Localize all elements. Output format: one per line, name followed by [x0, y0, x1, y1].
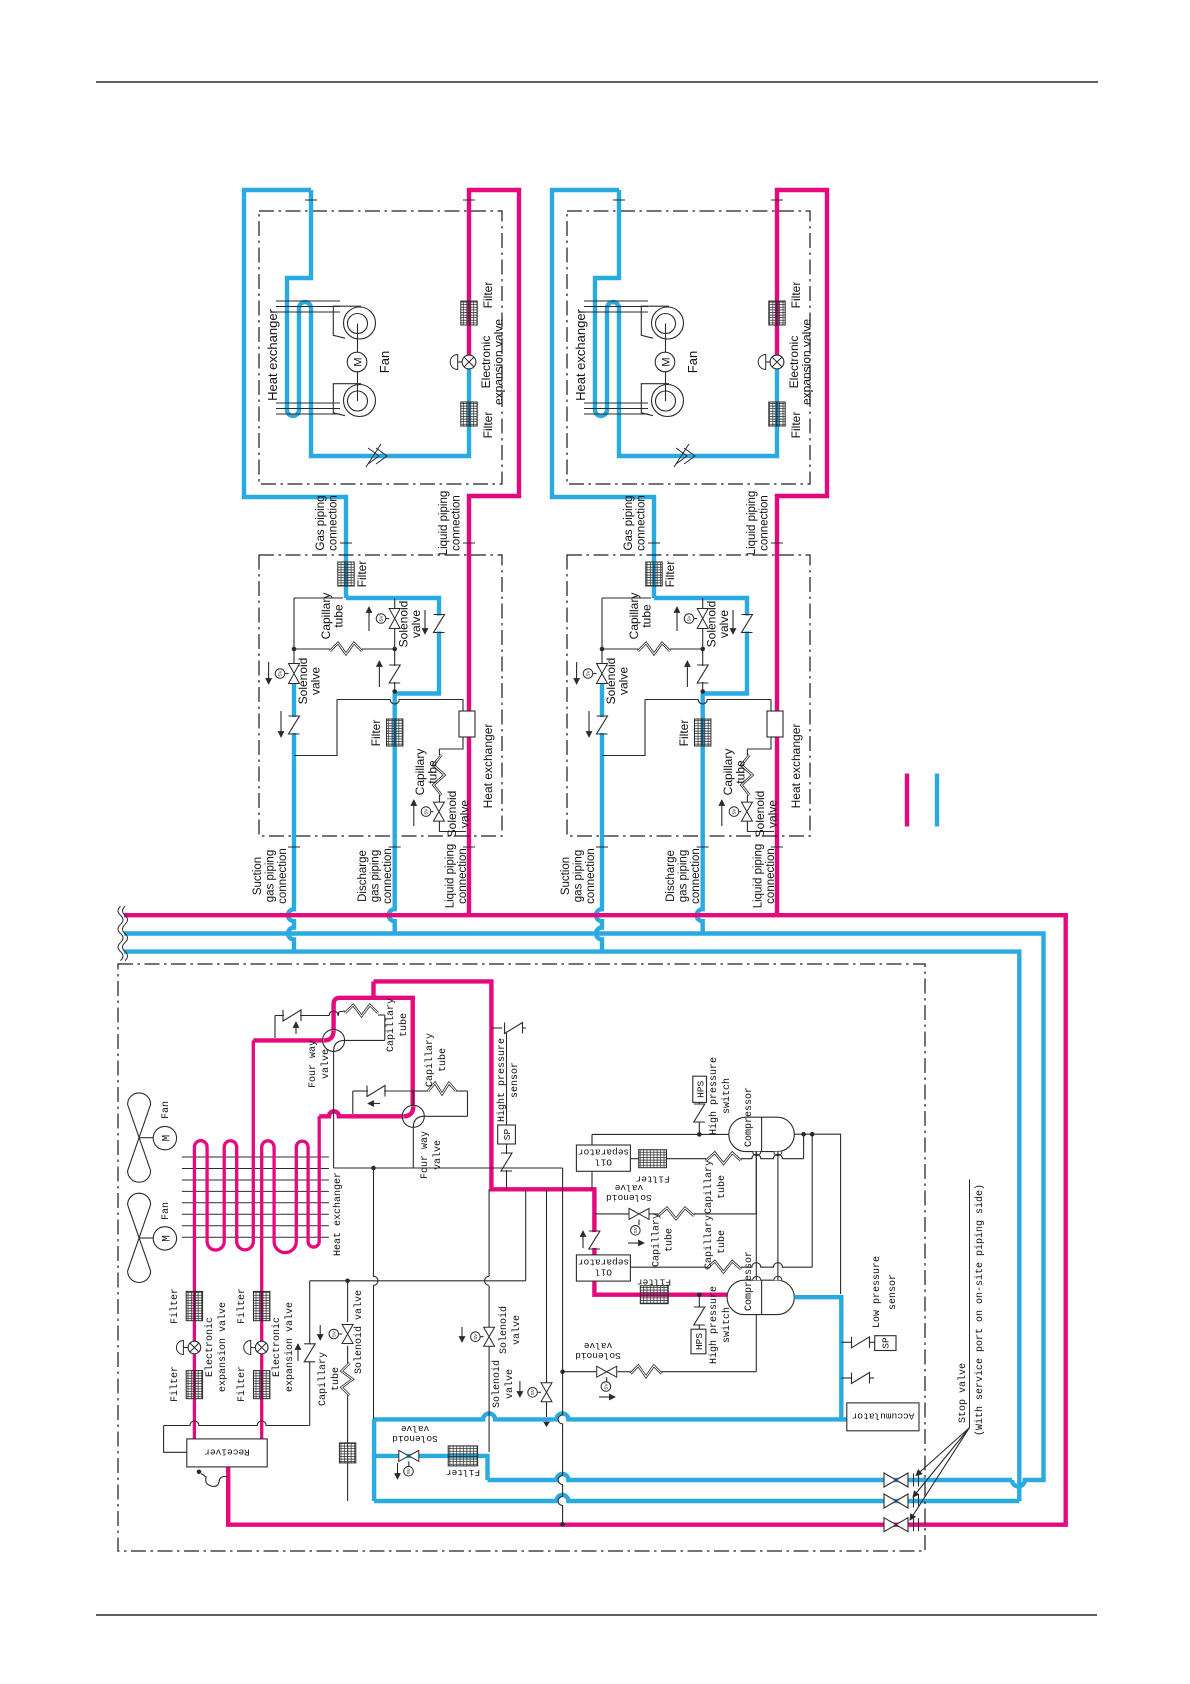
check valve Z (HPS1) — [691, 1105, 707, 1121]
EEV branch 1 filters — [186, 1291, 202, 1320]
legend liquid line sample (magenta) — [905, 774, 909, 827]
svg-text:Filter: Filter — [663, 561, 677, 588]
indoor unit 1 flow arrow on gas line — [366, 444, 387, 467]
solenoid valve SV1 (BS unit 2) — [597, 664, 608, 684]
solenoid valve SV2 (BS unit 1) — [389, 609, 400, 629]
filter on gas connection (BS unit 1) — [338, 562, 354, 586]
high pressure switch 2 box — [691, 1329, 706, 1354]
SV arrow (trunk interconnect) — [397, 1463, 399, 1479]
fan blower 1 (indoor unit 2) — [641, 306, 669, 338]
svg-text:Solenoid: Solenoid — [498, 1306, 510, 1354]
svg-text:SV: SV — [530, 1388, 535, 1395]
svg-text:Suction: Suction — [252, 857, 264, 895]
four-way valve U2 — [402, 1105, 424, 1127]
filter on gas connection (BS unit 2) — [646, 562, 662, 586]
svg-text:valve: valve — [617, 667, 631, 695]
svg-text:Filter: Filter — [236, 1288, 248, 1324]
svg-text:(With service port on on-site: (With service port on on-site piping sid… — [974, 1184, 986, 1436]
capillary line from U1 / wire — [339, 1011, 346, 1012]
capillary tube vertical (BS unit 2) — [741, 755, 752, 795]
HPS2 junction dot — [697, 1292, 702, 1297]
hot gas joint arrow — [544, 1422, 550, 1427]
check valve Z2 (BS unit 2) — [695, 666, 711, 682]
svg-text:Four way: Four way — [308, 1040, 319, 1088]
svg-text:Filter: Filter — [169, 1288, 181, 1324]
svg-text:Capillary: Capillary — [385, 998, 397, 1052]
indoor unit 1 filter (lower, on liquid line) — [461, 402, 477, 426]
svg-text:M: M — [661, 357, 673, 366]
solenoid valve SV3 (BS unit 1) — [433, 802, 444, 821]
HPS branch 1 wires / wire — [698, 1122, 700, 1134]
accumulator box — [847, 1403, 919, 1431]
svg-text:Filter: Filter — [677, 720, 691, 747]
svg-text:Filter: Filter — [446, 1467, 480, 1478]
indoor unit 2 coil fins — [584, 300, 648, 302]
svg-text:Suction: Suction — [560, 857, 572, 895]
SV3 flow arrow (BS unit 1) — [413, 800, 415, 826]
fan shaft (indoor unit 1) — [357, 324, 359, 353]
svg-text:tube: tube — [640, 604, 654, 628]
svg-text:SV: SV — [633, 1226, 638, 1233]
indoor unit 2 gas pipe (cyan) outer loop / wire — [552, 190, 654, 598]
SV arrow (discharge branch) — [461, 1327, 463, 1342]
indoor unit 1 coil fins — [276, 300, 340, 302]
electronic expansion valve (outdoor 1) — [188, 1341, 201, 1354]
SV1 flow arrow (BS unit 1) — [268, 662, 270, 684]
svg-text:tube: tube — [437, 1048, 449, 1072]
svg-text:valve: valve — [458, 800, 472, 828]
BS unit 2 gas header pipe (cyan) / wire — [654, 598, 747, 694]
indoor unit 2 filter (upper, on liquid line) — [769, 301, 785, 325]
svg-text:Fan: Fan — [377, 351, 392, 373]
svg-text:Solenoid: Solenoid — [491, 1360, 503, 1408]
solenoid valve SV3 (BS unit 2) — [741, 802, 752, 821]
stop valve (liquid) — [884, 1518, 908, 1532]
four-way valve suction return wires / wire — [333, 1051, 335, 1168]
suction gas trunk line (cyan) / wire — [374, 1413, 847, 1419]
svg-text:tube: tube — [716, 1230, 728, 1254]
svg-text:M: M — [162, 1235, 174, 1242]
svg-text:sensor: sensor — [510, 1062, 521, 1098]
solenoid valve (comp2 bypass) — [597, 1366, 617, 1377]
svg-text:High pressure: High pressure — [708, 1057, 720, 1135]
outdoor heat exchanger coil circuit 1 (magenta) / wire — [194, 1040, 253, 1439]
electronic expansion valve (indoor unit 1) — [462, 355, 476, 369]
BS unit 2 capillary line / wire — [602, 648, 638, 650]
check valve Z (LP sensor) — [853, 1334, 869, 1350]
svg-text:connection: connection — [636, 495, 648, 551]
svg-text:High pressure: High pressure — [708, 1286, 720, 1364]
indoor unit 1 enclosure (dash-dot box) — [259, 211, 502, 484]
oil separator 1 box — [576, 1145, 630, 1171]
stop valve (suction gas) — [884, 1494, 908, 1508]
Z arrow (U2 bypass) — [368, 1103, 380, 1105]
discharge riser (magenta) / wire — [374, 981, 728, 1294]
svg-text:Compressor: Compressor — [744, 1251, 755, 1311]
SV2 flow arrow (BS unit 1) — [368, 607, 370, 631]
stop valve leader lines — [969, 1179, 971, 1427]
capillary line from U2 / wire — [424, 1115, 467, 1117]
oil return 2 wire / wire — [631, 1266, 707, 1268]
svg-text:Filter: Filter — [355, 561, 369, 588]
capillary tube (BS unit 2) — [638, 643, 670, 654]
fan blower 1 (indoor unit 1) — [333, 306, 361, 338]
svg-text:valve: valve — [766, 800, 780, 828]
svg-text:Low pressure: Low pressure — [872, 1256, 883, 1328]
BS unit 1 solenoid branch wires — [394, 598, 396, 649]
svg-text:SV: SV — [424, 808, 429, 815]
high pressure switch 1 box — [693, 1076, 707, 1102]
capillary tube (BS unit 1) — [330, 643, 362, 654]
svg-text:Capillary: Capillary — [317, 1352, 329, 1406]
svg-text:Fan: Fan — [685, 351, 700, 373]
svg-text:Discharge: Discharge — [665, 850, 677, 902]
capillary tube (comp1 bypass) — [658, 1208, 694, 1219]
svg-text:Capillary: Capillary — [651, 1213, 663, 1267]
receiver box — [187, 1439, 267, 1467]
svg-text:Discharge: Discharge — [357, 850, 369, 902]
svg-text:expansion valve: expansion valve — [284, 1302, 296, 1392]
solenoid valve (hot gas) — [541, 1383, 552, 1402]
svg-text:Electronic: Electronic — [271, 1317, 283, 1377]
Z arrow (receiver inlet) — [297, 1344, 299, 1361]
svg-text:Filter: Filter — [789, 412, 803, 439]
BS unit 1 enclosure (dash-dot box) — [259, 555, 502, 836]
check valve Z3 on gas header (BS unit 2) — [739, 616, 755, 632]
BS unit 2 bottom border ticks — [596, 846, 608, 848]
svg-text:valve: valve — [717, 610, 731, 638]
svg-text:Capillary: Capillary — [703, 1215, 715, 1269]
solenoid valve (trunk interconnect) — [399, 1450, 419, 1461]
svg-text:Filter: Filter — [481, 412, 495, 439]
oil separator 1 drain wire / wire — [591, 1171, 593, 1189]
BS unit 1 gas header pipe (cyan) / wire — [346, 598, 439, 694]
svg-text:sensor: sensor — [888, 1274, 899, 1310]
check valve Z (HP sensor bottom) — [499, 1154, 515, 1170]
receiver oil curl / wire — [201, 1474, 228, 1487]
capillary tube (oil return 1) — [706, 1153, 741, 1164]
svg-text:SV: SV — [604, 1383, 609, 1390]
indoor unit 2 border tick marks — [613, 199, 625, 201]
indoor unit 1 filter (upper, on liquid line) — [461, 301, 477, 325]
hot gas bypass wires / wire — [546, 1189, 548, 1383]
comp1 bypass wires / wire — [594, 1213, 629, 1215]
svg-text:expansion valve: expansion valve — [217, 1302, 229, 1392]
svg-text:Filter: Filter — [637, 1277, 671, 1288]
svg-text:gas piping: gas piping — [265, 850, 277, 902]
svg-text:tube: tube — [716, 1175, 728, 1199]
Z1 arrow (BS unit 1) — [280, 711, 282, 737]
svg-text:M: M — [353, 357, 365, 366]
SV1 flow arrow (BS unit 2) — [576, 662, 578, 684]
svg-text:SV: SV — [687, 615, 692, 622]
svg-text:valve: valve — [511, 1315, 523, 1345]
svg-text:Receiver: Receiver — [204, 1447, 250, 1458]
svg-text:connection: connection — [451, 495, 463, 551]
svg-text:connection: connection — [328, 495, 340, 551]
check valve Z on discharge riser — [586, 1232, 602, 1248]
SP low pressure sensor box — [875, 1336, 896, 1351]
solenoid valve (discharge branch) — [484, 1327, 495, 1346]
EEV branch 2 filters — [254, 1291, 270, 1320]
outdoor fan 2 — [128, 1193, 151, 1282]
check valve bypass wires (U2) / wire — [353, 1090, 368, 1092]
svg-text:SV: SV — [379, 615, 384, 622]
svg-text:valve: valve — [432, 1140, 444, 1170]
svg-text:Heat exchanger: Heat exchanger — [265, 308, 280, 400]
HPS1 junction dot — [697, 1132, 702, 1137]
svg-text:valve: valve — [309, 667, 323, 695]
svg-text:Liquid piping: Liquid piping — [445, 844, 457, 909]
BS unit 1 suction pipe (cyan) / wire — [288, 684, 294, 952]
capillary tube (U1) — [345, 1005, 378, 1016]
SV arrow (comp1 bypass) — [628, 1242, 644, 1244]
subcool branch wires / wire — [347, 1281, 349, 1322]
BS unit 1 capillary line / wire — [294, 648, 330, 650]
svg-text:connection: connection — [457, 848, 469, 904]
indoor unit 1 gas pipe (cyan) outer loop / wire — [244, 190, 346, 598]
check valve Z1 on suction (BS unit 1) — [286, 717, 302, 733]
oil return 1 wire / wire — [631, 1158, 639, 1160]
filter on discharge (BS unit 1) — [387, 719, 403, 746]
svg-text:Liquid piping: Liquid piping — [438, 491, 450, 556]
svg-text:connection: connection — [277, 848, 289, 904]
svg-text:Filter: Filter — [481, 282, 495, 309]
BS unit 2 solenoid branch wires — [702, 598, 704, 649]
capillary tube vertical (BS unit 1) — [433, 755, 444, 795]
svg-text:gas piping: gas piping — [678, 850, 690, 902]
node junction dots (BS unit 1) — [292, 647, 297, 652]
svg-text:tube: tube — [734, 760, 748, 784]
svg-text:SV: SV — [406, 1467, 411, 1474]
manifold wire y=1168 extension / wire — [413, 1167, 562, 1169]
svg-text:Filter: Filter — [789, 282, 803, 309]
svg-text:valve: valve — [320, 1049, 332, 1079]
node junction dots (BS unit 2) — [600, 647, 605, 652]
svg-text:connection: connection — [690, 848, 702, 904]
BS unit 1 HX branch wires / wire — [294, 700, 337, 756]
svg-text:SP: SP — [502, 1129, 513, 1141]
Z2 arrow (BS unit 1) — [378, 661, 380, 687]
receiver inlet manifold wires / wire — [164, 1421, 310, 1426]
svg-text:expansion valve: expansion valve — [800, 319, 814, 405]
svg-text:switch: switch — [721, 1078, 733, 1114]
svg-text:SV: SV — [331, 1330, 336, 1337]
svg-text:tube: tube — [332, 604, 346, 628]
suction junction dots — [801, 1132, 806, 1137]
fan blower 2 (indoor unit 2) — [641, 384, 669, 416]
check valve Z (U2 bypass) — [368, 1083, 384, 1099]
svg-text:HPS: HPS — [694, 1333, 705, 1350]
indoor unit 1 heat exchanger coil (cyan) / wire — [287, 190, 469, 456]
high pressure sensor wires / wire — [491, 1027, 502, 1029]
indoor unit 2 heat exchanger coil (cyan) / wire — [595, 190, 777, 456]
svg-text:Solenoid valve: Solenoid valve — [353, 1290, 365, 1374]
compressor 2 (lower) — [727, 1280, 794, 1314]
svg-text:Capillary: Capillary — [703, 1160, 715, 1214]
svg-text:Electronic: Electronic — [204, 1317, 216, 1377]
page top rule — [96, 81, 1098, 83]
solenoid valve (comp1 bypass) — [629, 1208, 649, 1219]
BS unit 1 border ticks (top) — [340, 542, 352, 544]
Z arrow (U1 bypass) — [295, 1022, 297, 1034]
svg-text:Four way: Four way — [420, 1131, 431, 1179]
svg-text:M: M — [162, 1135, 174, 1142]
liquid manifold dot — [345, 1279, 350, 1284]
svg-text:SV: SV — [473, 1333, 478, 1340]
liquid trunk line (magenta) / wire — [124, 915, 1066, 1524]
stop valve (discharge gas) — [884, 1473, 908, 1487]
capillary tube (U2) — [428, 1083, 456, 1094]
comp2 bypass wires / wire — [563, 1371, 596, 1373]
suction return junction dot — [371, 1166, 376, 1171]
check valve Z (U1 bypass) — [284, 1008, 300, 1024]
svg-text:HPS: HPS — [696, 1080, 707, 1097]
page bottom rule — [96, 1614, 1097, 1616]
oil equalization wires / wire — [755, 1152, 757, 1281]
svg-text:valve: valve — [504, 1369, 516, 1399]
outdoor heat exchanger coil circuit 2 (magenta) / wire — [262, 1116, 320, 1439]
svg-text:Filter: Filter — [169, 1366, 181, 1402]
SV arrow (comp2 bypass) — [599, 1396, 615, 1398]
SV arrow (hot gas) — [519, 1381, 521, 1397]
filter (subcool) — [339, 1443, 355, 1463]
svg-text:Liquid piping: Liquid piping — [746, 491, 758, 556]
compressor 1 discharge wire / wire — [592, 1133, 729, 1135]
indoor unit 2 filter (lower, on liquid line) — [769, 402, 785, 426]
filter (oil return 1) — [639, 1150, 667, 1168]
plate heat exchanger (BS unit 1) — [459, 711, 475, 737]
SP high pressure sensor box — [498, 1125, 516, 1144]
four-way valve U1 — [323, 1029, 345, 1051]
svg-text:gas piping: gas piping — [370, 850, 382, 902]
SV arrow (subcool) — [319, 1325, 321, 1340]
HPS branch 2 wires / wire — [698, 1295, 700, 1307]
check valve Z2 (BS unit 1) — [387, 666, 403, 682]
indoor unit 1 liquid pipe (magenta) / wire — [469, 190, 519, 915]
outdoor coil fins — [182, 1156, 329, 1158]
discharge branch wires / wire — [488, 1189, 490, 1276]
fan shaft (indoor unit 2) — [665, 324, 667, 353]
svg-text:Capillary: Capillary — [424, 1033, 436, 1087]
svg-text:Hight pressure: Hight pressure — [496, 1038, 508, 1122]
plate heat exchanger (BS unit 2) — [767, 711, 783, 737]
check valve Z1 on suction (BS unit 2) — [594, 717, 610, 733]
check valve Z3 on gas header (BS unit 1) — [431, 616, 447, 632]
svg-text:gas piping: gas piping — [573, 850, 585, 902]
check valve Z (receiver inlet) — [302, 1345, 318, 1361]
svg-text:Accumulator: Accumulator — [852, 1411, 915, 1422]
svg-text:expansion valve: expansion valve — [492, 319, 506, 405]
discharge gas trunk line (cyan) / wire — [374, 1456, 487, 1480]
svg-text:tube: tube — [664, 1228, 676, 1252]
filter on discharge (BS unit 2) — [695, 719, 711, 746]
indoor unit 1 border tick marks — [305, 199, 317, 201]
liquid service vertical wire / wire — [558, 1168, 563, 1524]
junction dots on service vertical — [560, 1369, 565, 1374]
svg-text:Stop valve: Stop valve — [957, 1363, 969, 1423]
discharge branch hop — [485, 1276, 490, 1285]
svg-text:Filter: Filter — [236, 1366, 248, 1402]
svg-text:connection: connection — [382, 848, 394, 904]
outdoor unit enclosure (dash-dot box) — [118, 964, 925, 1551]
electronic expansion valve (indoor unit 2) — [770, 355, 784, 369]
SV2 flow arrow (BS unit 2) — [676, 607, 678, 631]
svg-text:SV: SV — [586, 670, 591, 677]
svg-text:tube: tube — [330, 1367, 342, 1391]
solenoid valve SV2 (BS unit 2) — [697, 609, 708, 629]
svg-text:tube: tube — [398, 1013, 410, 1037]
outdoor fan 1 — [128, 1093, 151, 1182]
svg-text:connection: connection — [585, 848, 597, 904]
BS unit 1 thin line top-left / wire — [294, 597, 343, 599]
fan motor M (indoor unit 1) — [347, 352, 367, 372]
Z2 arrow (BS unit 2) — [686, 661, 688, 687]
BS unit 1 discharge pipe down to trunk (cyan) / wire — [389, 694, 395, 934]
receiver curl dot — [197, 1470, 202, 1475]
Z arrow (discharge riser) — [582, 1231, 584, 1248]
svg-text:Heat exchanger: Heat exchanger — [573, 308, 588, 400]
fan motor M (indoor unit 2) — [655, 352, 675, 372]
SV3 flow arrow (BS unit 2) — [721, 800, 723, 826]
capillary tube (oil return 2) — [706, 1261, 741, 1272]
svg-text:SV: SV — [732, 808, 737, 815]
four-way valve 1 feed pipe (magenta) / wire — [253, 1038, 322, 1042]
svg-text:Fan: Fan — [161, 1202, 172, 1220]
svg-text:Filter: Filter — [369, 720, 383, 747]
compressor 1 (upper) — [729, 1117, 795, 1151]
indoor unit 2 enclosure (dash-dot box) — [567, 211, 810, 484]
svg-text:Heat exchanger: Heat exchanger — [332, 1172, 344, 1256]
svg-text:Heat exchanger: Heat exchanger — [789, 724, 803, 809]
svg-text:Heat exchanger: Heat exchanger — [481, 724, 495, 809]
capillary tube (comp2 bypass) — [631, 1366, 662, 1377]
BS unit 2 suction pipe (cyan) / wire — [596, 684, 602, 952]
oil separator 2 box — [576, 1255, 630, 1281]
check valve Z (HP sensor top) — [506, 1020, 522, 1036]
BS unit 2 border ticks (top) — [648, 542, 660, 544]
svg-text:Gas piping: Gas piping — [315, 496, 327, 551]
Z1 arrow (BS unit 2) — [588, 711, 590, 737]
BS unit 2 HX branch wires / wire — [602, 700, 645, 756]
solenoid valve SV1 (BS unit 1) — [289, 664, 300, 684]
svg-text:Fan: Fan — [161, 1101, 172, 1119]
indoor unit 2 liquid pipe (magenta) / wire — [777, 190, 827, 915]
capillary tube (subcool) — [342, 1363, 353, 1396]
svg-text:Gas piping: Gas piping — [623, 496, 635, 551]
svg-text:Compressor: Compressor — [744, 1087, 755, 1147]
svg-text:switch: switch — [721, 1307, 733, 1343]
indoor unit 2 flow arrow on gas line — [674, 444, 695, 467]
svg-text:valve: valve — [409, 610, 423, 638]
legend gas line sample (cyan) — [935, 774, 939, 827]
low pressure sensor wires / wire — [841, 1341, 852, 1343]
pipe break marks at trunk left ends — [118, 906, 123, 924]
compressor 1 suction wire / wire — [794, 1134, 840, 1294]
solenoid valve (subcool) — [342, 1325, 353, 1344]
svg-text:tube: tube — [426, 760, 440, 784]
check valve Z (HPS2) — [691, 1308, 707, 1324]
svg-text:connection: connection — [759, 495, 771, 551]
svg-text:SV: SV — [278, 670, 283, 677]
BS unit 2 thin line top-left / wire — [602, 597, 651, 599]
check valve bypass wires (U1) / wire — [275, 1015, 284, 1017]
BS unit 2 enclosure (dash-dot box) — [567, 555, 810, 836]
liquid manifold wire / wire — [310, 1280, 526, 1282]
BS unit 1 bottom border ticks — [288, 846, 300, 848]
svg-text:connection: connection — [765, 848, 777, 904]
electronic expansion valve (outdoor 2) — [255, 1341, 268, 1354]
